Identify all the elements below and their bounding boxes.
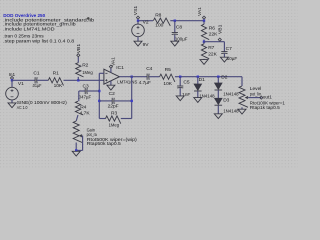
svg-text:1Meg: 1Meg <box>109 122 120 128</box>
svg-text:22pF: 22pF <box>108 104 119 110</box>
svg-text:LM741/NS: LM741/NS <box>117 80 138 86</box>
ground under op-amp <box>107 85 115 90</box>
wire inverting input <box>99 72 104 74</box>
svg-text:R3: R3 <box>111 111 117 117</box>
svg-text:C3: C3 <box>83 84 89 90</box>
svg-text:22K: 22K <box>209 31 218 37</box>
node VA1 flag top <box>197 7 206 22</box>
svg-text:10K: 10K <box>54 83 63 89</box>
wire R8 to VA1 <box>170 20 204 22</box>
svg-text:pot_lin: pot_lin <box>250 91 262 97</box>
capacitor C1 <box>32 71 42 90</box>
junction output feedback <box>131 76 133 78</box>
ground under Level pot <box>238 109 246 114</box>
junction at R2 <box>77 79 79 81</box>
svg-text:R8: R8 <box>155 12 161 18</box>
svg-text:10K: 10K <box>163 81 172 87</box>
ground under C8 <box>171 41 179 46</box>
capacitor C7 <box>221 42 237 62</box>
ground under R7 <box>200 60 208 65</box>
svg-text:VB1: VB1 <box>217 24 223 34</box>
svg-text:VA1: VA1 <box>110 57 116 66</box>
wire op-amp output <box>119 76 147 78</box>
svg-text:R1: R1 <box>53 70 59 76</box>
svg-text:VB1: VB1 <box>76 44 82 54</box>
wire feedback right vertical <box>131 77 133 119</box>
V1 value SINE <box>17 100 67 106</box>
svg-text:C8: C8 <box>176 24 182 30</box>
junction at C8 <box>174 20 176 22</box>
svg-text:R6: R6 <box>209 25 215 31</box>
ground under V1 <box>8 103 16 108</box>
svg-text:Rtap50k tap0.5: Rtap50k tap0.5 <box>87 141 121 147</box>
capacitor C8 <box>172 21 188 43</box>
svg-text:V2: V2 <box>143 20 149 26</box>
wire C2 branch <box>99 100 131 102</box>
wire C4 to R5 <box>149 76 160 78</box>
capacitor C2 <box>108 91 119 110</box>
junction C3 bus <box>98 90 100 92</box>
svg-text:V1: V1 <box>18 81 24 87</box>
spice directive include 2 <box>3 22 76 28</box>
wire C3 branch <box>79 90 100 92</box>
wire VS1 junction to R8 <box>138 20 153 22</box>
resistor R2 <box>76 57 93 81</box>
svg-text:VS1: VS1 <box>133 5 139 15</box>
svg-text:.include LM741.MOD: .include LM741.MOD <box>3 27 55 33</box>
svg-text:.tran 0 25ms 23ms: .tran 0 25ms 23ms <box>3 34 44 40</box>
wire Level wiper to out1 <box>249 97 262 99</box>
junction C2 right <box>131 100 133 102</box>
node VB1 flag right <box>217 24 223 41</box>
ground under D3 <box>214 114 222 119</box>
svg-text:Rtap1k tap0.5: Rtap1k tap0.5 <box>250 105 280 111</box>
junction at C5 <box>179 76 181 78</box>
wire to VB1/C7 <box>204 41 224 43</box>
potentiometer Gain <box>73 121 82 143</box>
node In1 flag <box>9 72 16 79</box>
voltage source V2 <box>132 20 150 48</box>
svg-text:R4: R4 <box>80 104 86 110</box>
ground under D1 <box>194 98 202 103</box>
junction R6/R7 <box>203 41 205 43</box>
svg-text:Level: Level <box>250 86 262 92</box>
svg-text:1N4148: 1N4148 <box>223 108 239 114</box>
svg-text:4.7K: 4.7K <box>80 110 91 116</box>
ground under Gain pot <box>72 151 80 156</box>
svg-text:C4: C4 <box>146 66 152 72</box>
spice directive step <box>3 39 74 45</box>
wire R4 to Gain pot <box>76 115 78 121</box>
svg-text:C2: C2 <box>109 91 115 97</box>
potentiometer Level <box>239 86 249 107</box>
svg-text:100µF: 100µF <box>175 37 188 43</box>
resistor R3 <box>106 111 121 129</box>
capacitor C4 <box>139 66 153 86</box>
resistor R7 <box>201 42 217 60</box>
junction at D2 <box>217 76 219 78</box>
resistor R5 <box>160 67 175 87</box>
Gain pot labels <box>87 127 138 147</box>
svg-text:.01µF: .01µF <box>32 83 42 89</box>
V1 value AC <box>17 105 28 111</box>
wire In1 to C1 <box>12 79 35 81</box>
junction at In1 <box>11 79 13 81</box>
wire R5 to Level pot <box>175 76 242 78</box>
Level pot labels <box>250 86 285 111</box>
wire Level bottom <box>241 107 243 109</box>
wire R1 to op-amp <box>64 79 104 81</box>
svg-text:AC 1.0: AC 1.0 <box>17 105 28 111</box>
resistor R6 <box>201 21 218 42</box>
svg-text:IC1: IC1 <box>116 65 124 71</box>
capacitor C3 <box>78 84 92 101</box>
svg-text:.047µF: .047µF <box>78 94 92 100</box>
svg-text:D3: D3 <box>223 97 229 103</box>
node out1 flag <box>260 95 272 101</box>
voltage source V1 <box>6 80 24 103</box>
spice directive include 1 <box>3 17 94 23</box>
svg-text:R7: R7 <box>208 45 214 51</box>
ground under C5 <box>176 96 184 101</box>
wire Gain wiper <box>76 136 82 151</box>
schematic title <box>3 13 45 19</box>
junction C2 bus <box>98 100 100 102</box>
svg-text:4.7µF: 4.7µF <box>139 80 151 86</box>
svg-text:out1: out1 <box>263 95 272 101</box>
svg-text:9V: 9V <box>143 42 150 48</box>
junction at VS1 <box>137 20 139 22</box>
junction at D1 <box>197 76 199 78</box>
op-amp IC1 <box>104 65 138 85</box>
svg-text:R2: R2 <box>82 62 88 68</box>
svg-text:D1: D1 <box>199 77 205 83</box>
svg-text:VA1: VA1 <box>197 7 203 16</box>
resistor R4 <box>75 101 90 116</box>
node VS1 flag <box>133 5 140 19</box>
svg-text:In1: In1 <box>9 72 16 78</box>
diode D2 <box>215 74 239 98</box>
junction Gain bottom <box>75 149 77 151</box>
diode D1 <box>194 77 215 100</box>
svg-text:C1: C1 <box>33 71 39 77</box>
wire feedback bus <box>98 73 100 118</box>
svg-text:R5: R5 <box>165 67 171 73</box>
wire C1 to R1 <box>37 79 48 81</box>
ground under C7 <box>220 57 228 62</box>
svg-text:C7: C7 <box>226 46 232 52</box>
node VA1 flag at op-amp <box>109 57 116 68</box>
spice directive include 3 <box>3 27 55 33</box>
capacitor C5 <box>177 77 190 98</box>
svg-text:100: 100 <box>155 22 163 28</box>
node VB1 flag at R2 <box>76 44 82 57</box>
wire C3 to R4 <box>78 91 80 101</box>
wire R3 branch <box>99 118 131 120</box>
svg-text:22K: 22K <box>208 51 217 57</box>
resistor R1 <box>48 70 63 89</box>
diode D3 <box>215 97 239 114</box>
wire to Level pot <box>241 77 243 86</box>
svg-text:C5: C5 <box>183 80 189 86</box>
ground under V2 <box>134 41 142 46</box>
resistor R8 <box>153 12 170 28</box>
svg-text:D2: D2 <box>221 74 227 80</box>
wire Gain bottom <box>75 143 77 151</box>
svg-text:1N4148: 1N4148 <box>223 92 239 98</box>
cursor speck <box>87 17 90 20</box>
spice directive tran <box>3 34 44 40</box>
svg-text:1Meg: 1Meg <box>82 70 93 76</box>
svg-text:.step param wip list 0.1 0.4 0: .step param wip list 0.1 0.4 0.8 <box>3 39 74 45</box>
